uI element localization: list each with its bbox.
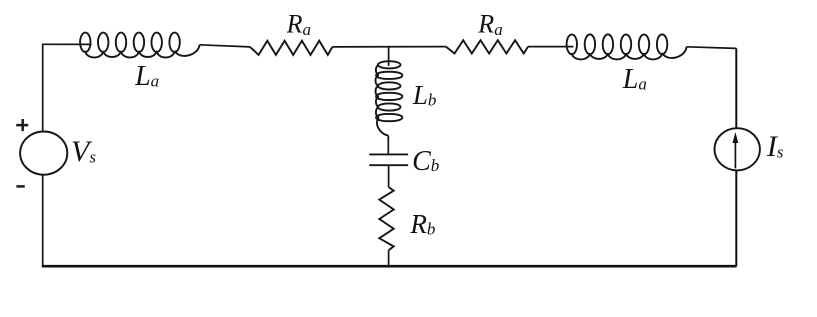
wire: left resistor to T-junction to right resistor: [332, 46, 446, 48]
label L_a (left): [135, 63, 159, 91]
capacitor C_b top plate: [369, 153, 408, 155]
label R_b: [410, 211, 435, 238]
wire: left vertical above voltage source: [42, 44, 44, 132]
label L_b: [413, 82, 437, 109]
inductor L_a (right coil): [567, 34, 687, 59]
label R_a (right): [478, 12, 502, 39]
inductor L_a (left coil): [80, 33, 199, 58]
plus sign of V_s: [16, 119, 28, 131]
resistor R_b (vertical zigzag): [379, 187, 393, 250]
voltage source V_s circle: [20, 132, 67, 175]
label R_a (left): [287, 11, 311, 38]
inductor L_b (vertical coil): [375, 61, 402, 135]
current source arrow shaft: [734, 139, 736, 169]
wire: top rail left stub into coil La: [42, 43, 92, 45]
current source I_s circle: [715, 128, 760, 170]
current source arrowhead: [733, 132, 739, 143]
minus sign of V_s: [16, 185, 24, 188]
resistor R_a (right): [446, 40, 528, 53]
wire: left vertical below voltage source: [42, 175, 44, 267]
node: top T-junction stub down to L_b: [388, 47, 390, 66]
wire: right coil to top-right corner: [687, 47, 737, 49]
capacitor C_b bottom plate: [369, 164, 408, 166]
wire: L_b to capacitor C_b: [387, 136, 389, 154]
label C_b: [412, 148, 439, 176]
label I_s: [767, 132, 784, 162]
wire: right vertical, corner down to current source: [735, 48, 737, 128]
label V_s: [71, 137, 96, 167]
wire: below current source to bottom-right corner: [735, 170, 737, 266]
label L_a (right): [623, 66, 647, 94]
wire: between left coil and left resistor: [200, 45, 251, 47]
wire: right resistor into right coil: [528, 46, 574, 48]
wire: bottom rail: [42, 265, 737, 268]
resistor R_a (left): [250, 41, 332, 55]
wire: capacitor to resistor R_b: [388, 165, 390, 187]
wire: R_b to bottom rail junction: [388, 250, 390, 266]
